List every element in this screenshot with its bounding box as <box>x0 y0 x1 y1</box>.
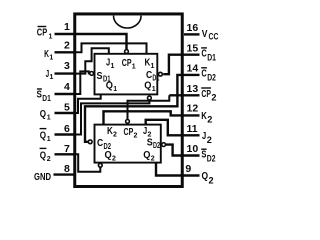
flip-flop FF1 box <box>95 54 158 95</box>
svg-text:1: 1 <box>47 136 51 143</box>
CD1 clear bubble FF1 right <box>159 72 163 76</box>
svg-text:1: 1 <box>49 54 53 61</box>
svg-text:CP: CP <box>122 58 132 69</box>
svg-text:CP: CP <box>37 27 48 38</box>
svg-text:8: 8 <box>64 163 70 175</box>
FF1 label CD1 <box>146 70 160 83</box>
label CP2bar <box>201 88 216 102</box>
svg-text:D2: D2 <box>207 73 216 83</box>
FF2 label CP2 <box>124 127 138 140</box>
FF1 label SD1 <box>97 71 111 84</box>
svg-text:2: 2 <box>209 175 214 185</box>
label K1 <box>44 49 53 61</box>
svg-text:1: 1 <box>50 74 54 81</box>
svg-text:1: 1 <box>111 63 115 70</box>
svg-text:2: 2 <box>112 156 116 163</box>
svg-text:Q: Q <box>202 171 209 182</box>
svg-text:Q: Q <box>106 81 113 92</box>
svg-text:1: 1 <box>132 64 136 71</box>
svg-text:CP: CP <box>124 127 134 138</box>
label Q1 <box>40 109 51 122</box>
label K2 <box>201 111 212 125</box>
svg-text:2: 2 <box>64 40 70 52</box>
svg-text:C: C <box>201 49 206 60</box>
CD2 clear bubble FF2 left <box>88 140 92 144</box>
svg-text:1: 1 <box>64 21 70 33</box>
wire pin2 to K1 <box>74 43 147 53</box>
svg-text:9: 9 <box>185 163 191 175</box>
svg-text:15: 15 <box>187 42 199 54</box>
svg-text:D2: D2 <box>153 141 160 150</box>
label CD2bar <box>201 68 216 83</box>
svg-text:2: 2 <box>207 115 212 125</box>
svg-text:10: 10 <box>187 143 199 155</box>
svg-text:1: 1 <box>152 86 156 93</box>
svg-text:D1: D1 <box>42 94 51 103</box>
SD2 set bubble FF2 right <box>162 143 166 147</box>
FF2 label K2 <box>107 126 117 139</box>
flip-flop FF2 box <box>95 125 161 163</box>
FF1 label Q1 right <box>144 81 156 94</box>
label SD1bar <box>37 89 52 103</box>
pin 3 line <box>55 72 74 74</box>
notch orientation mark <box>114 16 142 28</box>
label Q2 pin9 <box>202 171 214 186</box>
pin 13 line <box>169 94 199 96</box>
svg-text:1: 1 <box>151 63 155 70</box>
svg-text:7: 7 <box>64 143 70 155</box>
svg-text:1: 1 <box>49 34 53 41</box>
pin 4 line <box>55 93 74 95</box>
pin 16 VCC line <box>184 33 200 35</box>
svg-text:J: J <box>202 131 206 142</box>
FF1 label CP1 <box>122 58 136 71</box>
wire Q1bar to pin6 <box>74 100 150 135</box>
pin 11 line + wire to J2 <box>146 120 200 136</box>
svg-text:Q: Q <box>144 81 151 92</box>
SD1 set bubble FF1 left <box>90 72 94 76</box>
pin 1 line + wire to CP1 bubble <box>55 34 127 49</box>
svg-text:C: C <box>201 69 206 80</box>
svg-text:2: 2 <box>151 156 155 163</box>
pin 5 line <box>55 112 74 114</box>
FF2 label J2 <box>143 126 152 139</box>
Q2bar bubble under FF2 <box>98 163 102 167</box>
pin 12 line + K2 channel <box>104 111 200 124</box>
label J2 <box>202 131 212 145</box>
FF1 label Q1 left <box>106 81 118 94</box>
FF1 label K1 <box>145 58 155 71</box>
wire Q2bar to pin7 <box>74 154 101 172</box>
svg-text:11: 11 <box>187 123 198 135</box>
svg-text:CP: CP <box>201 89 211 100</box>
Q1bar bubble under FF1 <box>148 96 152 100</box>
svg-text:D1: D1 <box>207 52 216 62</box>
FF2 label Q2 left <box>105 150 117 163</box>
svg-text:14: 14 <box>187 63 199 75</box>
svg-text:2: 2 <box>211 92 216 102</box>
svg-text:Q: Q <box>40 109 46 120</box>
svg-text:Q: Q <box>40 150 46 161</box>
svg-text:D2: D2 <box>207 154 216 164</box>
FF2 label Q2 right <box>143 150 155 163</box>
label VCC <box>202 29 219 42</box>
svg-text:6: 6 <box>64 123 70 135</box>
svg-text:5: 5 <box>64 102 70 114</box>
pin 14 line + wire to CD2 bubble <box>85 75 200 142</box>
pin 2 line <box>55 51 74 53</box>
wire pin4 to SD1 bubble <box>74 71 90 94</box>
IC body DIP-16 outline <box>75 14 183 187</box>
label J1 <box>46 69 54 81</box>
svg-text:2: 2 <box>113 132 117 139</box>
label Q1bar <box>40 129 51 144</box>
svg-text:C: C <box>146 70 152 81</box>
pin 7 line <box>55 153 74 155</box>
FF1 label J1 <box>106 58 115 71</box>
wire pin3 to J1 <box>74 48 109 73</box>
CP1 clock bubble FF1 <box>125 50 129 54</box>
FF2 label SD2 <box>147 137 161 150</box>
pin 9 line + wire from Q2 <box>156 163 200 176</box>
svg-text:Q: Q <box>143 150 150 161</box>
svg-text:Q: Q <box>40 131 46 142</box>
label CD1bar <box>201 48 216 62</box>
CP2 clock bubble FF2 <box>126 120 130 124</box>
pin 8 GND line <box>54 173 74 175</box>
pin 15 line + wire to CD1 bubble <box>163 55 199 74</box>
svg-text:2: 2 <box>134 132 138 139</box>
svg-text:GND: GND <box>34 172 51 183</box>
label SD2bar <box>201 149 215 163</box>
svg-text:3: 3 <box>64 60 70 72</box>
svg-text:C: C <box>97 138 103 149</box>
svg-text:13: 13 <box>187 83 199 95</box>
svg-text:1: 1 <box>47 115 51 122</box>
label Q2bar <box>40 148 51 163</box>
svg-text:4: 4 <box>64 81 70 93</box>
svg-text:2: 2 <box>47 156 51 163</box>
wire Q1 to pin5 <box>74 94 101 113</box>
wire pin13 to CP2 bubble <box>128 95 170 119</box>
svg-text:1: 1 <box>113 86 117 93</box>
svg-text:Q: Q <box>105 150 112 161</box>
svg-text:2: 2 <box>207 135 212 145</box>
svg-text:CC: CC <box>209 32 219 42</box>
svg-text:S: S <box>97 71 103 82</box>
label CP1bar <box>37 27 53 41</box>
pin 10 line + wire to SD2 bubble <box>166 145 200 156</box>
svg-text:12: 12 <box>187 103 199 115</box>
svg-text:16: 16 <box>187 22 199 34</box>
svg-text:V: V <box>202 29 208 40</box>
FF2 label CD2 <box>97 138 111 151</box>
pin 6 line <box>55 133 74 135</box>
